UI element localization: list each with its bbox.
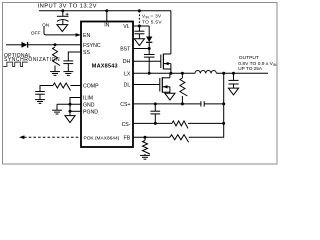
svg-text:UP TO 25A: UP TO 25A [238, 66, 263, 71]
capacitor C-VL [138, 26, 140, 31]
junction (106.8,10.7) [105, 9, 108, 12]
inductor L1 [195, 70, 216, 73]
border frame [3, 3, 278, 165]
diode D1 sync [22, 42, 28, 48]
transistor Q1 high-side NMOS [161, 54, 171, 74]
svg-text:PGND: PGND [83, 109, 98, 115]
resistor R-COMP [53, 83, 71, 91]
wire PGND [70, 110, 81, 112]
capacitor C-CSfilter [154, 104, 156, 111]
node VOUT rail [216, 72, 268, 74]
capacitor C-CS series [200, 101, 202, 106]
svg-text:MAX8543: MAX8543 [92, 63, 118, 69]
ground (FB divider) [140, 154, 150, 156]
diode D2 BST [146, 37, 152, 43]
capacitor C-SS [63, 60, 73, 62]
svg-text:DH: DH [123, 59, 131, 65]
resistor R-FB2 divider low [143, 141, 151, 155]
wire LX [133, 72, 195, 74]
resistor R-CS [172, 121, 188, 128]
junction (155.3,123.4) [154, 122, 157, 125]
wire VL [133, 25, 149, 27]
svg-text:FB: FB [124, 135, 131, 141]
junction (62.8,10.7) [61, 9, 64, 12]
junction (70,104.3) [69, 103, 72, 106]
svg-text:OUTPUT: OUTPUT [239, 55, 259, 61]
svg-text:INPUT 3V TO 13.2V: INPUT 3V TO 13.2V [38, 4, 97, 10]
ground (PGND power triangle) [65, 116, 75, 123]
wire CS- [133, 122, 172, 124]
wire POK (dashed) [24, 136, 81, 138]
op-amp U1 MAX8543 IC body [81, 22, 133, 148]
junction (223.7,103.9) [222, 102, 225, 105]
junction (55,44.8) [54, 43, 57, 46]
wire feedback column [189, 73, 224, 137]
junction (233.5,73.3) [232, 72, 235, 75]
wire BST [133, 48, 149, 50]
junction (223.7,73.3) [222, 72, 225, 75]
resistor R-sense [181, 73, 183, 78]
ground (output cap triangle) [228, 88, 238, 95]
svg-text:GND: GND [83, 102, 95, 108]
wire VIN-VL optional (dashed) [138, 11, 140, 26]
wire FSYNC to pin [28, 44, 81, 46]
svg-text:ON: ON [42, 23, 50, 29]
svg-text:BST: BST [120, 47, 131, 53]
wire CS+ [133, 103, 201, 105]
wire input drop to Q1 drain [170, 11, 172, 54]
svg-text:CS+: CS+ [120, 102, 130, 108]
wire EN [46, 34, 76, 36]
ground (SS cap) [63, 71, 73, 73]
ground (FSYNC resistor) [50, 71, 60, 73]
svg-text:ILIM: ILIM [83, 96, 93, 102]
wire COMP [71, 85, 82, 87]
wire FB [133, 136, 170, 138]
junction (139.4,26) [138, 25, 141, 28]
junction (155.3,103.9) [154, 102, 157, 105]
wire IN pin [106, 11, 108, 22]
svg-text:OFF: OFF [31, 30, 41, 36]
switch ON/OFF [43, 27, 45, 33]
junction (223.7,123.4) [222, 122, 225, 125]
sync square wave [3, 62, 28, 66]
capacitor C-OUT [233, 73, 235, 80]
resistor R-FSYNC pulldown [53, 47, 61, 65]
svg-text:POK (MAX8644): POK (MAX8644) [84, 135, 120, 141]
junction (145,137.25) [144, 136, 147, 139]
wire COMP to cap [40, 86, 53, 92]
junction (170.9,73.3) [169, 72, 172, 75]
svg-text:LX: LX [124, 71, 131, 77]
wire ILIM [70, 98, 81, 116]
ground (VL cap triangle) [134, 39, 144, 46]
junction (149.2,73.3) [148, 72, 151, 75]
wire DH [133, 60, 161, 62]
ground (GND pin bars) [52, 109, 62, 111]
svg-text:IN: IN [104, 22, 109, 28]
svg-text:FSYNC: FSYNC [83, 43, 101, 49]
svg-text:EN: EN [83, 33, 90, 39]
ground (input cap, power triangle) [57, 25, 68, 32]
junction (182.4,103.9) [181, 102, 184, 105]
junction (182.4,73.3) [181, 72, 184, 75]
junction (149.2,48.5) [148, 47, 151, 50]
svg-text:COMP: COMP [83, 84, 99, 90]
wire GND [57, 103, 81, 105]
junction (70,111.3) [69, 110, 72, 113]
ground (COMP cap) [35, 99, 45, 101]
resistor R-FB1 series [170, 135, 189, 143]
ground (Q2 source triangle) [165, 93, 175, 100]
svg-text:VL: VL [123, 24, 129, 30]
svg-text:SS: SS [83, 50, 90, 56]
capacitor C-BST [148, 49, 150, 55]
wire FSYNC [6, 44, 22, 46]
svg-text:TO 5.5V: TO 5.5V [142, 19, 162, 24]
wire DL [133, 84, 160, 86]
svg-text:DL: DL [124, 83, 131, 89]
capacitor C1 input (polarized) [62, 11, 64, 17]
node VIN input rail [39, 10, 171, 12]
capacitor C-COMP [35, 91, 45, 93]
junction (139.4,10.7) [138, 9, 141, 12]
label + polarity [66, 13, 69, 16]
transistor Q2 low-side NMOS [160, 73, 170, 93]
svg-text:CS-: CS- [122, 122, 131, 128]
wire VL to diode [148, 26, 150, 37]
wire SS [68, 52, 81, 61]
